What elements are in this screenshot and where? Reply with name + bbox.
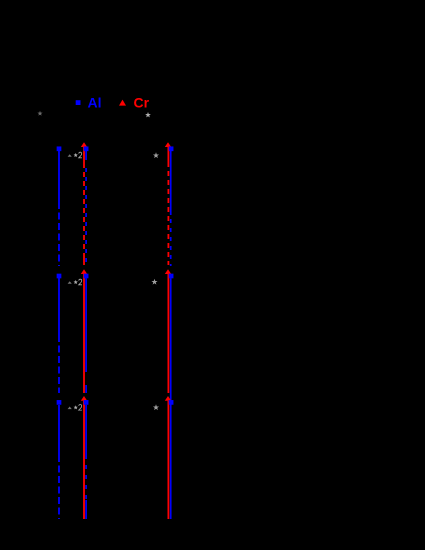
faint annotation (triangle star 2) row1 chain2 [68,152,82,158]
chain 3 (Al) blue line solid segments [170,151,172,519]
legend marker Cr (red triangle) [119,100,126,106]
chain 2 Cr triangle row2 [81,269,87,274]
chain 2 Cr triangle row3 [81,396,87,401]
svg-text:Al: Al [88,95,102,111]
chain 3 Cr triangle row1 [165,142,171,147]
svg-text:Cr: Cr [134,95,150,111]
faint star marker below legend [145,112,151,117]
chain 3 Al square row3 [169,400,174,405]
chain 2 Al square row1 [84,146,89,151]
chain 1 (Al) blue line solid segments [58,149,60,455]
chain 1 Al square row1 [57,146,62,151]
chain 3 (Cr) red line solid segments [167,147,169,519]
faint annotation (triangle star 2) row3 chain2 [68,404,82,410]
chain 2 Cr triangle row1 [81,142,87,147]
chain 2 Al square row2 [84,274,89,279]
chain 3 (Al) blue line dashed segment [170,219,172,266]
faint annotation (triangle star 2) row2 chain2 [68,279,82,285]
chain 3 Al square row1 [169,146,174,151]
faint star marker row2 chain3 [151,279,157,285]
legend marker Al (blue square) [76,100,81,105]
chain 2 (Al) blue line dashed segments [85,168,87,266]
faint star mark top left [37,111,42,116]
chain 2 (Cr) red line dashed segment [83,163,85,253]
chain 1 (Al) blue line dashed segments [58,202,60,519]
chain 1 Al square row3 [57,400,62,405]
faint star marker row1 chain3 [153,152,159,158]
chain 2 Al square row3 [84,400,89,405]
chain 1 Al square row2 [57,274,62,279]
chain 3 (Cr) red line dashed segment [167,162,169,262]
chain 3 Cr triangle row2 [165,269,171,274]
chain 3 Al square row2 [169,274,174,279]
faint star marker row3 chain3 [153,404,159,410]
chain 3 Cr triangle row3 [165,396,171,401]
chain 2 (Cr) red line solid segments [83,147,85,519]
chain 2 (Al) blue line solid segments [85,151,87,519]
